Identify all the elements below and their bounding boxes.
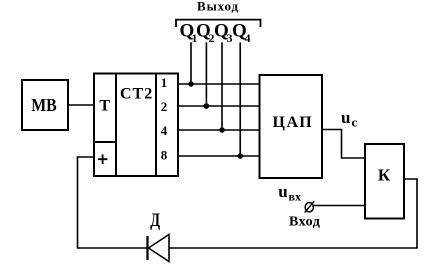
svg-text:8: 8 [161, 147, 168, 162]
svg-text:Вход: Вход [289, 215, 320, 230]
svg-text:с: с [352, 114, 358, 129]
svg-text:4: 4 [161, 123, 168, 138]
svg-text:СТ2: СТ2 [120, 85, 153, 102]
svg-text:1: 1 [161, 75, 168, 90]
svg-text:Выход: Выход [197, 0, 239, 13]
svg-text:u: u [278, 182, 287, 201]
svg-text:Т: Т [99, 98, 110, 115]
svg-text:2: 2 [161, 99, 168, 114]
svg-text:К: К [378, 166, 391, 185]
svg-text:ЦАП: ЦАП [273, 114, 314, 131]
svg-text:Д: Д [150, 209, 160, 230]
svg-text:3: 3 [227, 31, 233, 45]
svg-text:2: 2 [209, 31, 215, 45]
svg-text:4: 4 [245, 31, 251, 45]
svg-text:вх: вх [289, 189, 301, 203]
svg-text:u: u [341, 108, 350, 127]
svg-text:1: 1 [192, 31, 198, 45]
svg-text:МВ: МВ [31, 95, 57, 115]
